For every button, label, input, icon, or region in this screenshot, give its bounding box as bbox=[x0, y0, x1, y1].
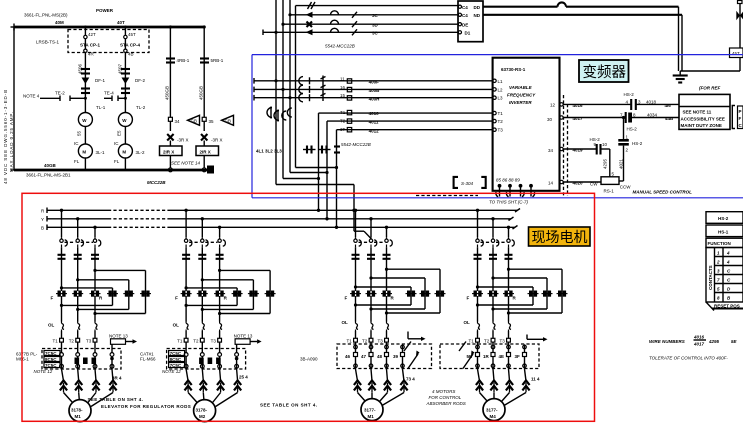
svg-text:TL-1: TL-1 bbox=[96, 105, 106, 110]
elbow v1 long bbox=[276, 185, 356, 232]
motor starter group 3177-M4 bbox=[440, 209, 568, 421]
jumper arrow g4 bbox=[526, 335, 528, 340]
svg-text:DF-2: DF-2 bbox=[135, 78, 145, 83]
jumper arrow g3 bbox=[407, 332, 409, 339]
shielded cable dashes bbox=[564, 95, 568, 196]
wire ref right edge bbox=[680, 1, 743, 72]
svg-text:2: 2 bbox=[716, 260, 720, 265]
switch HS-2 contacts 9-10 bbox=[590, 137, 615, 177]
wire C4A bbox=[288, 11, 458, 18]
svg-text:C4: C4 bbox=[462, 5, 468, 10]
fuse 34 bbox=[167, 134, 188, 146]
svg-text:L2: L2 bbox=[498, 87, 504, 92]
svg-text:M1: M1 bbox=[75, 414, 82, 419]
svg-text:5542-MCC22B: 5542-MCC22B bbox=[325, 44, 355, 49]
svg-text:40T: 40T bbox=[117, 20, 125, 25]
wire D0 bbox=[296, 2, 459, 9]
svg-text:-3R X: -3R X bbox=[177, 138, 189, 143]
SEC-POWER bbox=[3, 8, 234, 185]
svg-text:SEE TABLE ON SHT 4.: SEE TABLE ON SHT 4. bbox=[260, 403, 318, 408]
svg-text:3B-A090: 3B-A090 bbox=[300, 357, 318, 362]
svg-text:NOTE 12: NOTE 12 bbox=[162, 369, 181, 374]
svg-text:SEE TABLE ON SHT 4.: SEE TABLE ON SHT 4. bbox=[88, 397, 144, 402]
svg-text:HS-2: HS-2 bbox=[718, 216, 729, 221]
svg-text:RESET POS: RESET POS bbox=[714, 304, 740, 309]
svg-text:L3: L3 bbox=[498, 96, 504, 101]
table HS-2 header bbox=[706, 212, 743, 224]
svg-text:MAX.LOAD 0.25 AMP.: MAX.LOAD 0.25 AMP. bbox=[9, 111, 14, 172]
svg-text:FUNCTION: FUNCTION bbox=[708, 241, 731, 246]
svg-text:SEE NOTE 14: SEE NOTE 14 bbox=[171, 161, 201, 166]
wire 4016 bbox=[563, 103, 631, 108]
svg-text:3661-FL.PNL-MS(2B): 3661-FL.PNL-MS(2B) bbox=[24, 13, 68, 18]
svg-text:1R: 1R bbox=[483, 354, 490, 359]
svg-text:34: 34 bbox=[175, 119, 181, 124]
note 11 box bbox=[679, 94, 730, 129]
wire to ground lower bbox=[483, 15, 682, 71]
wire D1 bbox=[263, 28, 458, 35]
contact STA CP-1 bbox=[80, 26, 100, 100]
svg-text:C4: C4 bbox=[462, 13, 468, 18]
svg-text:45T: 45T bbox=[732, 51, 740, 56]
relay coil 3L-2 bbox=[114, 144, 145, 170]
terminal T3 bbox=[493, 128, 503, 133]
svg-text:F: F bbox=[739, 116, 742, 121]
svg-text:HS-1: HS-1 bbox=[718, 229, 729, 234]
wire 4010 bbox=[319, 110, 494, 116]
svg-text:POWER: POWER bbox=[96, 8, 114, 13]
svg-text:TE-2: TE-2 bbox=[55, 91, 65, 96]
svg-text:4017: 4017 bbox=[573, 116, 584, 121]
svg-text:45T: 45T bbox=[128, 32, 136, 37]
svg-text:3D: 3D bbox=[372, 22, 379, 27]
svg-text:25 4: 25 4 bbox=[239, 375, 248, 380]
fuse 35 bbox=[201, 134, 223, 146]
svg-text:4295: 4295 bbox=[603, 158, 608, 169]
svg-text:ND: ND bbox=[474, 13, 481, 18]
node + left rail bbox=[11, 24, 18, 171]
svg-text:FL: FL bbox=[74, 159, 80, 164]
label 现场电机 bbox=[529, 227, 591, 246]
svg-text:M: M bbox=[82, 150, 86, 155]
svg-text:-3R X: -3R X bbox=[211, 138, 223, 143]
svg-text:3R 4: 3R 4 bbox=[112, 376, 122, 381]
wire 4012 bbox=[337, 127, 494, 133]
bus Y bbox=[41, 216, 514, 222]
wire 4011 bbox=[327, 119, 493, 125]
svg-text:4017: 4017 bbox=[693, 342, 705, 347]
wire numbers note bbox=[649, 335, 738, 347]
relay coil W2 bbox=[114, 113, 132, 147]
svg-text:4I6: 4I6 bbox=[665, 103, 672, 108]
svg-text:IC: IC bbox=[74, 141, 79, 146]
svg-text:3C: 3C bbox=[372, 13, 379, 18]
terminal 35 plug GB bbox=[202, 115, 233, 131]
terminal 30 bbox=[547, 116, 563, 122]
drop to bus B bbox=[335, 130, 338, 229]
svg-text:11 4: 11 4 bbox=[531, 377, 540, 382]
svg-text:3661-FL.PNL-MS-2B1: 3661-FL.PNL-MS-2B1 bbox=[26, 173, 71, 178]
SEC-INVERTER bbox=[416, 58, 568, 205]
terminal 34 plug GB bbox=[168, 115, 199, 131]
svg-text:变频器: 变频器 bbox=[583, 64, 627, 81]
terminal L1 bbox=[493, 79, 503, 84]
svg-text:3C: 3C bbox=[372, 31, 379, 36]
table contacts grid bbox=[706, 248, 743, 303]
svg-text:4R: 4R bbox=[88, 52, 95, 57]
dashed terminal box g4 bbox=[440, 344, 539, 369]
svg-text:11: 11 bbox=[340, 76, 345, 81]
svg-text:LRSB-TS-1: LRSB-TS-1 bbox=[36, 40, 60, 45]
wire 400F bbox=[254, 76, 493, 85]
elbow v2 bbox=[283, 178, 319, 180]
bus 40GB bottom bbox=[14, 163, 214, 185]
table HS-1 header bbox=[706, 225, 743, 237]
wire 4020 bbox=[563, 180, 601, 185]
svg-text:MCC22B: MCC22B bbox=[147, 180, 166, 185]
svg-text:TO THIS SHT.(C-7): TO THIS SHT.(C-7) bbox=[489, 200, 529, 205]
svg-text:35: 35 bbox=[209, 119, 215, 124]
svg-text:FREQUENCY: FREQUENCY bbox=[507, 93, 536, 98]
svg-text:DE: DE bbox=[462, 23, 468, 28]
svg-text:4019: 4019 bbox=[573, 147, 584, 152]
svg-text:40GB: 40GB bbox=[44, 163, 57, 168]
svg-text:4016: 4016 bbox=[693, 335, 705, 340]
motor starter group 3177-M1 bbox=[300, 209, 446, 421]
SEC-TABLE bbox=[649, 212, 743, 361]
svg-text:63730-RS-1: 63730-RS-1 bbox=[501, 67, 526, 72]
svg-text:12: 12 bbox=[550, 102, 556, 107]
svg-text:4021: 4021 bbox=[618, 158, 623, 169]
svg-text:RS-1: RS-1 bbox=[604, 189, 615, 194]
relay coil W1 bbox=[74, 113, 92, 147]
svg-text:MANUAL SPEED CONTROL: MANUAL SPEED CONTROL bbox=[633, 190, 693, 195]
svg-text:STA CP-1: STA CP-1 bbox=[80, 43, 100, 48]
svg-text:44B: 44B bbox=[665, 116, 674, 121]
svg-text:WIRE NUMBERS: WIRE NUMBERS bbox=[649, 339, 685, 344]
svg-text:ELEVATOR FOR REGULATOR RODS: ELEVATOR FOR REGULATOR RODS bbox=[101, 404, 191, 409]
ground bbox=[673, 71, 688, 83]
svg-text:SEE NOTE 11: SEE NOTE 11 bbox=[683, 109, 712, 114]
svg-text:4: 4 bbox=[726, 251, 730, 256]
switch HS-2 contacts 4-3 bbox=[624, 92, 680, 110]
feeder vertical 1 bbox=[267, 0, 278, 185]
svg-text:5542-MCC22B: 5542-MCC22B bbox=[341, 142, 371, 147]
bus 40A top bbox=[14, 8, 205, 27]
svg-text:(FOR REF: (FOR REF bbox=[699, 86, 720, 91]
svg-text:42T: 42T bbox=[88, 32, 96, 37]
svg-text:D1: D1 bbox=[465, 31, 471, 36]
svg-text:NOTE 4: NOTE 4 bbox=[23, 94, 40, 99]
svg-text:3177-: 3177- bbox=[486, 408, 498, 413]
relay box LRSB-TS-1 dashed bbox=[36, 30, 149, 53]
terminal box C4 bbox=[458, 1, 483, 42]
terminals 85 86 88 89 bbox=[496, 178, 535, 197]
svg-text:T2: T2 bbox=[340, 119, 346, 124]
svg-text:4295: 4295 bbox=[708, 339, 720, 344]
caption 4 motors bbox=[426, 389, 466, 406]
svg-text:3L-2: 3L-2 bbox=[136, 150, 146, 155]
svg-text:T1: T1 bbox=[498, 111, 504, 116]
S-304 bracket bbox=[454, 177, 486, 188]
48VDC side note text bbox=[3, 89, 14, 184]
svg-text:M1: M1 bbox=[368, 414, 375, 419]
disconnect slash g4 bbox=[459, 342, 466, 352]
svg-text:ABSORBER RODS: ABSORBER RODS bbox=[426, 401, 466, 406]
svg-text:3177-: 3177- bbox=[364, 408, 376, 413]
svg-text:4E: 4E bbox=[499, 354, 505, 359]
svg-text:73 4: 73 4 bbox=[406, 377, 415, 382]
svg-text:TE-4: TE-4 bbox=[104, 91, 114, 96]
terminal 34 bbox=[548, 147, 563, 153]
svg-text:E5: E5 bbox=[117, 130, 122, 136]
wire 4019 bbox=[563, 147, 596, 152]
svg-text:400B: 400B bbox=[369, 88, 381, 93]
svg-text:4011: 4011 bbox=[369, 120, 379, 125]
motor starter group 3178-M1 bbox=[16, 209, 151, 422]
note 4 interlock wire bbox=[23, 91, 85, 102]
svg-text:3178-: 3178- bbox=[196, 408, 208, 413]
svg-text:L1: L1 bbox=[498, 79, 504, 84]
terminal T1 bbox=[493, 111, 503, 116]
terminal T2 bbox=[493, 119, 503, 124]
elbow v4 bbox=[296, 167, 337, 169]
svg-text:4 MOTORS: 4 MOTORS bbox=[432, 389, 455, 394]
svg-text:30: 30 bbox=[547, 117, 553, 122]
table bottom scribble bbox=[706, 302, 743, 311]
svg-text:STA CP-4: STA CP-4 bbox=[120, 43, 140, 48]
SEC-FEEDERS bbox=[254, 0, 743, 239]
svg-text:B: B bbox=[41, 225, 44, 230]
svg-text:T3: T3 bbox=[498, 128, 504, 133]
drop to bus R bbox=[317, 113, 320, 212]
svg-text:FOR CONTROL: FOR CONTROL bbox=[429, 395, 462, 400]
svg-text:CONTACTS: CONTACTS bbox=[708, 265, 713, 290]
svg-text:GB: GB bbox=[225, 118, 232, 123]
svg-text:450GB: 450GB bbox=[165, 86, 170, 100]
table function row bbox=[706, 238, 743, 247]
svg-text:NOTE 12: NOTE 12 bbox=[34, 369, 53, 374]
svg-text:3L-1: 3L-1 bbox=[96, 150, 106, 155]
svg-text:INVERTER: INVERTER bbox=[509, 100, 532, 105]
contact DF-1 bbox=[81, 69, 106, 110]
drop to bus Y bbox=[325, 121, 328, 220]
svg-text:M2: M2 bbox=[199, 414, 206, 419]
blue highlight frame VFD zone bbox=[252, 55, 743, 198]
svg-text:P: P bbox=[739, 109, 742, 114]
svg-text:TOLERATE OF CONTROL INTO 400F-: TOLERATE OF CONTROL INTO 400F- bbox=[649, 356, 728, 361]
SEC-BUSES bbox=[41, 208, 520, 231]
svg-text:400H: 400H bbox=[369, 96, 380, 101]
resistor box 2IR X left bbox=[160, 146, 183, 172]
wire DE bbox=[281, 20, 458, 27]
svg-text:M4: M4 bbox=[490, 414, 497, 419]
contactor linkage bbox=[321, 76, 326, 102]
bracket right bbox=[732, 106, 743, 129]
svg-text:47: 47 bbox=[361, 354, 367, 359]
wire 450GB branch 34 bbox=[165, 25, 190, 117]
svg-text:4L1 3L2 3L3: 4L1 3L2 3L3 bbox=[256, 149, 282, 154]
bus R bbox=[41, 208, 520, 214]
wire 4017 bbox=[563, 116, 626, 121]
feeder vertical 4 bbox=[287, 6, 295, 168]
terminal L3 bbox=[493, 96, 503, 101]
elbow v3 bbox=[290, 172, 327, 174]
svg-text:10: 10 bbox=[602, 142, 608, 147]
svg-text:48 VDC SEE DWG.5560-1-3-ED-B: 48 VDC SEE DWG.5560-1-3-ED-B bbox=[3, 89, 8, 184]
wire 400H bbox=[254, 93, 493, 102]
svg-text:3F: 3F bbox=[515, 354, 521, 359]
dashed terminal box g3 bbox=[337, 344, 432, 369]
resistor box 2IR X right bbox=[196, 146, 219, 172]
wire 450GB branch 35 bbox=[198, 25, 223, 117]
relay coil 3L-1 bbox=[74, 144, 105, 170]
svg-text:HS-2: HS-2 bbox=[632, 141, 643, 146]
svg-text:15: 15 bbox=[340, 93, 346, 98]
svg-text:450GB: 450GB bbox=[198, 86, 203, 100]
svg-text:48: 48 bbox=[377, 354, 383, 359]
wire branch A bbox=[78, 52, 86, 112]
potentiometer RS-1 bbox=[590, 177, 631, 194]
wire to ground upper bbox=[483, 2, 679, 71]
svg-text:46: 46 bbox=[345, 354, 351, 359]
svg-text:4010: 4010 bbox=[369, 111, 380, 116]
svg-text:2IR X: 2IR X bbox=[200, 149, 211, 154]
svg-text:3178-: 3178- bbox=[71, 408, 83, 413]
label 变频器 bbox=[579, 60, 629, 82]
cable labels 4L1 3L2 3L3 bbox=[256, 146, 340, 154]
feeder vertical 2 bbox=[274, 0, 285, 179]
wire branch B bbox=[118, 52, 126, 112]
svg-text:85 86 88 89: 85 86 88 89 bbox=[496, 178, 520, 183]
svg-text:ACCESSIBILITY SEE: ACCESSIBILITY SEE bbox=[681, 117, 725, 122]
svg-text:39: 39 bbox=[393, 354, 399, 359]
svg-text:5RB-1: 5RB-1 bbox=[211, 58, 224, 63]
svg-text:现场电机: 现场电机 bbox=[532, 229, 588, 245]
svg-text:W: W bbox=[122, 118, 127, 123]
svg-text:4018: 4018 bbox=[646, 99, 657, 104]
terminal L2 bbox=[493, 87, 503, 92]
svg-text:3T: 3T bbox=[340, 127, 346, 132]
svg-text:4034: 4034 bbox=[647, 112, 658, 117]
bus B bbox=[41, 225, 518, 231]
svg-text:4016: 4016 bbox=[573, 103, 584, 108]
svg-text:M: M bbox=[122, 150, 126, 155]
svg-text:MAINT DUTY ZONE: MAINT DUTY ZONE bbox=[681, 123, 722, 128]
svg-text:FL: FL bbox=[114, 159, 120, 164]
switch HS-2 contacts 7-8 bbox=[620, 112, 679, 132]
wire 400B bbox=[254, 85, 493, 94]
svg-text:16: 16 bbox=[340, 85, 346, 90]
inverter box 63730-RS-1 bbox=[493, 58, 560, 191]
terminal 12 bbox=[550, 102, 563, 107]
svg-text:DD: DD bbox=[474, 5, 481, 10]
svg-text:40M: 40M bbox=[55, 20, 64, 25]
svg-text:VARIABLE: VARIABLE bbox=[509, 85, 533, 90]
svg-text:4012: 4012 bbox=[369, 128, 380, 133]
svg-text:34: 34 bbox=[548, 148, 554, 153]
SEC-HS2 bbox=[563, 92, 743, 195]
motor starter group 3178-M2 bbox=[140, 209, 276, 422]
svg-text:400F: 400F bbox=[369, 79, 380, 84]
svg-text:2IR X: 2IR X bbox=[163, 149, 174, 154]
control wire to note arrow bbox=[354, 231, 371, 238]
svg-text:4RB-1: 4RB-1 bbox=[177, 58, 190, 63]
svg-text:CCW: CCW bbox=[620, 185, 631, 190]
contact DF-2 bbox=[121, 69, 146, 110]
svg-text:55: 55 bbox=[77, 130, 82, 136]
svg-text:14: 14 bbox=[548, 180, 554, 185]
svg-text:4B: 4B bbox=[128, 52, 134, 57]
interlock wire branch B bbox=[104, 91, 125, 102]
svg-text:IC: IC bbox=[114, 141, 119, 146]
disconnect slash g3 bbox=[404, 342, 411, 352]
svg-text:GB: GB bbox=[191, 118, 198, 123]
shield cable continuation dashes bbox=[416, 195, 478, 197]
svg-text:4020: 4020 bbox=[573, 180, 584, 185]
svg-text:DF-1: DF-1 bbox=[95, 78, 105, 83]
svg-text:T1: T1 bbox=[340, 110, 346, 115]
svg-text:TL-2: TL-2 bbox=[136, 105, 146, 110]
terminal 14 bbox=[548, 180, 563, 185]
svg-text:4: 4 bbox=[726, 260, 730, 265]
contact STA CP-4 bbox=[120, 26, 140, 100]
svg-text:HS-2: HS-2 bbox=[627, 127, 638, 132]
red highlight frame motors zone bbox=[22, 193, 595, 421]
svg-text:FL-M66: FL-M66 bbox=[140, 357, 156, 362]
svg-text:W: W bbox=[82, 118, 87, 123]
switch HS-2 contacts 1-2 vertical bbox=[618, 116, 642, 181]
svg-text:HS-2: HS-2 bbox=[624, 92, 635, 97]
feeder vertical 3 bbox=[282, 0, 292, 173]
svg-text:Y: Y bbox=[41, 217, 44, 222]
svg-text:T2: T2 bbox=[498, 119, 504, 124]
svg-text:S-304: S-304 bbox=[461, 181, 474, 186]
